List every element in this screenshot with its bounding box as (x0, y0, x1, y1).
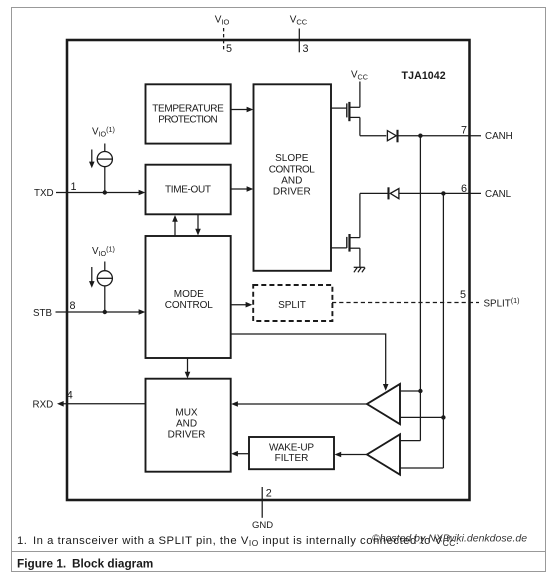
wire receiver to mux (arrow) (231, 401, 367, 407)
svg-text:DRIVER: DRIVER (273, 187, 311, 198)
pin 1 TXD wire (34, 181, 145, 199)
svg-text:SPLIT(1): SPLIT(1) (484, 296, 520, 310)
block TEMPERATURE PROTECTION (146, 84, 231, 143)
svg-text:GND: GND (252, 520, 273, 531)
svg-text:6: 6 (461, 183, 467, 195)
pin 4 RXD wire (arrow out) (33, 390, 146, 411)
svg-text:VIO(1): VIO(1) (92, 125, 115, 138)
wire receiver input lower (400, 416, 443, 418)
transistor Q1 (high-side MOSFET) (331, 102, 360, 136)
wire mode control to receiver (arrow down) (231, 334, 389, 391)
wire mode control to mux (arrow down) (185, 358, 191, 379)
svg-text:FILTER: FILTER (275, 453, 309, 464)
svg-text:RXD: RXD (33, 400, 54, 411)
ground (354, 267, 365, 272)
wire wake receiver input lower (400, 467, 443, 469)
svg-text:©hosted by NXP wiki.denkdose.d: ©hosted by NXP wiki.denkdose.de (372, 533, 527, 545)
wire CANL vertical to receivers (442, 193, 444, 468)
wire wake-up filter to mux (arrow) (231, 451, 249, 457)
svg-text:TXD: TXD (34, 188, 54, 199)
node receiver input junction 2 (441, 415, 445, 419)
svg-text:5: 5 (460, 289, 466, 301)
wire temperature protection to slope control (arrow) (231, 107, 254, 113)
wire CANL (399, 192, 481, 194)
svg-text:4: 4 (67, 390, 73, 402)
svg-text:VIO: VIO (215, 15, 230, 27)
wire SPLIT (dashed) to pin 5 (332, 289, 520, 310)
svg-text:1: 1 (71, 181, 77, 193)
svg-text:TEMPERATURE: TEMPERATURE (152, 104, 224, 115)
wire time-out down to mode control (arrow down) (195, 214, 201, 235)
svg-text:VIO(1): VIO(1) (92, 244, 115, 257)
wire receiver input upper (400, 390, 420, 392)
svg-text:CONTROL: CONTROL (269, 164, 315, 175)
wire CANH (398, 135, 482, 137)
wire wake receiver to wake-up filter (arrow) (335, 452, 368, 458)
node receiver input junction (418, 389, 422, 393)
svg-text:SPLIT: SPLIT (278, 300, 306, 311)
wire mode control up to time-out (arrow up) (172, 215, 178, 236)
svg-text:5: 5 (226, 43, 232, 55)
svg-text:CANH: CANH (485, 131, 513, 142)
op-amp U1 (receiver) (367, 384, 400, 424)
svg-text:MODE: MODE (174, 289, 204, 300)
IC boundary TJA1042 (67, 40, 470, 500)
block SPLIT (dashed) (253, 285, 332, 321)
node CANL junction (441, 191, 445, 195)
diode D1 (CANH) (360, 130, 398, 143)
svg-text:PROTECTION: PROTECTION (158, 114, 218, 125)
svg-text:WAKE-UP: WAKE-UP (269, 442, 314, 453)
svg-text:Figure 1.Block diagram: Figure 1.Block diagram (17, 557, 153, 571)
svg-text:3: 3 (303, 43, 309, 55)
svg-text:DRIVER: DRIVER (168, 430, 206, 441)
svg-text:CANL: CANL (485, 189, 512, 200)
node STB junction (103, 310, 107, 314)
svg-text:VCC: VCC (290, 15, 308, 27)
block WAKE-UP FILTER (249, 437, 334, 469)
wire mode control to split (arrow) (231, 302, 253, 308)
pin 3 VCC (top) (290, 15, 309, 56)
svg-text:STB: STB (33, 308, 53, 319)
pin 6 CANL label (461, 183, 512, 200)
current source I1 VIO (on TXD) (89, 125, 115, 193)
svg-text:AND: AND (281, 175, 302, 186)
current source I2 VIO (on STB) (89, 244, 115, 312)
op-amp U2 (wake-up receiver) (367, 434, 400, 474)
wire wake receiver input upper (400, 440, 420, 442)
svg-text:CONTROL: CONTROL (165, 300, 213, 311)
svg-text:8: 8 (70, 300, 76, 312)
wire time-out to slope control (arrow) (231, 186, 254, 192)
VCC net label (upper transistor) (351, 70, 368, 108)
svg-text:AND: AND (176, 419, 197, 430)
diode D2 (CANL) (360, 187, 399, 199)
svg-text:MUX: MUX (175, 407, 198, 418)
block MODE CONTROL (146, 236, 231, 358)
block TIME-OUT (146, 165, 231, 215)
svg-text:VCC: VCC (351, 70, 368, 82)
block SLOPE CONTROL AND DRIVER (254, 84, 332, 270)
svg-text:7: 7 (461, 125, 467, 137)
svg-text:TJA1042: TJA1042 (402, 70, 446, 82)
node TXD junction (103, 190, 107, 194)
wire CANH vertical to receivers (419, 136, 421, 441)
pin 2 GND (252, 487, 273, 531)
transistor Q2 (low-side MOSFET) (331, 193, 360, 267)
pin 5 VIO (top) (215, 15, 232, 56)
svg-text:2: 2 (266, 488, 272, 500)
node CANH junction (418, 134, 422, 138)
svg-text:SLOPE: SLOPE (275, 153, 309, 164)
pin 8 STB wire (33, 300, 145, 319)
pin 7 CANH label (461, 125, 513, 143)
block MUX AND DRIVER (146, 379, 231, 472)
svg-text:TIME-OUT: TIME-OUT (165, 184, 211, 195)
